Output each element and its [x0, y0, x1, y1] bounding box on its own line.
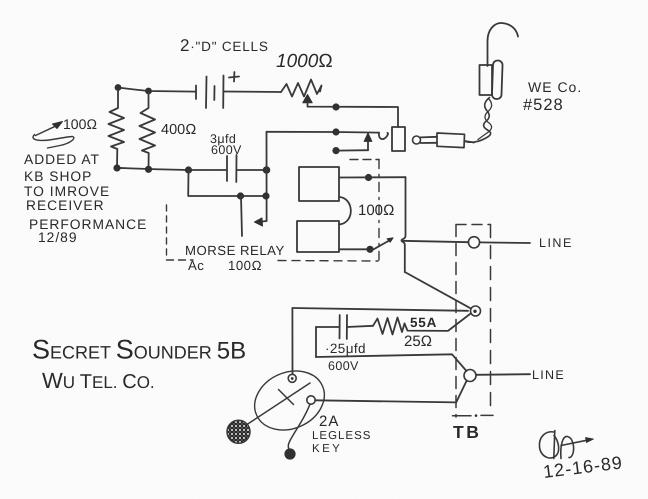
jack tip arrow pointing up — [367, 139, 369, 150]
wire: stub down into relay box — [241, 196, 242, 236]
wire: key contact to terminal 3 — [315, 381, 466, 402]
battery B1 (2 D cells) — [196, 72, 239, 108]
relay dashed enclosure left side — [166, 205, 168, 257]
receiver hanger hook — [488, 23, 519, 66]
resistor R1 100 ohm (vertical) — [109, 89, 125, 167]
terminal 3 (lower LINE) — [464, 370, 476, 382]
key knob (crosshatched) — [227, 420, 250, 443]
junction dot end y196 rail — [262, 192, 269, 199]
label LINE (bottom) — [532, 368, 565, 382]
capacitor C2 .25 mfd plates — [339, 315, 341, 339]
label 1000 ohm — [276, 51, 333, 72]
wire: upper coil to TB riser — [339, 176, 406, 178]
svg-text:Ac: Ac — [188, 258, 204, 273]
wire: riser x267 from mid rail down to arrow — [266, 132, 268, 221]
wire: resistor to terminal 2 — [405, 314, 471, 331]
svg-text:·25μfd: ·25μfd — [325, 341, 366, 356]
label TB — [453, 422, 481, 442]
svg-text:25Ω: 25Ω — [404, 333, 432, 350]
resistor R4 25 ohm zigzag — [373, 318, 405, 335]
svg-text:MORSE RELAY: MORSE RELAY — [185, 243, 285, 258]
phone plug shaft — [421, 137, 438, 143]
label MORSE RELAY AC 100 ohm — [185, 243, 285, 273]
terminal block dash-dot bottom — [453, 414, 494, 416]
wire: riser to LINE terminal 1 — [402, 241, 469, 242]
label 100 ohm (relay coil) — [358, 202, 395, 219]
wire: mid rail y132 to jack hook — [267, 131, 380, 134]
wire: top rail of spark network to terminal 2 — [292, 308, 468, 311]
resistor R2 400 ohm (vertical) — [140, 92, 156, 168]
wire: diagonal riser to terminal 2 — [405, 272, 471, 309]
key stop stud — [284, 448, 295, 459]
svg-text:KB SHOP: KB SHOP — [24, 169, 92, 184]
junction dot on y196 rail — [237, 192, 244, 199]
label 2A LEGLESS KEY — [312, 413, 371, 455]
wire: cap tap down and right — [188, 170, 266, 196]
svg-text:#528: #528 — [523, 96, 564, 114]
terminal block dashed left side — [455, 225, 457, 418]
svg-text:2·"D" CELLS: 2·"D" CELLS — [180, 36, 269, 55]
LINE terminal 1 — [468, 237, 479, 248]
annotation text ADDED AT KB SHOP — [24, 152, 147, 245]
key top terminal — [288, 374, 296, 382]
label 25 ohm — [404, 333, 432, 350]
relay coil upper — [299, 167, 339, 201]
wire: C1 right plate to vertical riser — [237, 169, 267, 171]
terminal 2 (relay/key junction) — [471, 306, 481, 316]
junction dot lower coil wire — [366, 246, 373, 253]
terminal block dashed right side — [490, 225, 492, 412]
terminal block dashed top — [456, 224, 491, 226]
svg-text:600V: 600V — [211, 143, 242, 157]
key cross mark — [279, 390, 294, 405]
rheostat wiper arrow — [303, 95, 312, 103]
wire: TB riser with jog at crossing — [402, 177, 406, 272]
connection arrow (added tap) pointing left — [261, 220, 267, 223]
relay coil connecting arc — [339, 197, 351, 225]
svg-text:100Ω: 100Ω — [228, 258, 262, 273]
svg-text:55A: 55A — [410, 315, 437, 330]
svg-text:100Ω: 100Ω — [358, 202, 395, 219]
date 12-16-89 — [542, 452, 624, 482]
relay armature switch blade with arrow — [372, 240, 391, 251]
relay dashed enclosure top — [350, 159, 379, 161]
relay dashed enclosure right side — [378, 160, 380, 261]
relay dashed enclosure bottom — [167, 259, 194, 261]
wire: top rail from node A to battery — [118, 88, 196, 92]
junction dot top of R2 — [145, 88, 152, 95]
label 100 ohm (added resistor) — [63, 116, 97, 132]
rheostat R3 1000 ohm zigzag — [281, 80, 322, 97]
receiver cord (twisted pair) — [466, 98, 491, 143]
junction dot at cap tap — [185, 166, 192, 173]
title SECRET SOUNDER 5B — [32, 335, 246, 394]
svg-text:LINE: LINE — [532, 368, 565, 382]
annotation arrow squiggle — [36, 125, 60, 136]
jack spring hook contact — [379, 133, 388, 139]
wire: inner branch vertical — [315, 327, 317, 357]
key contact terminal — [307, 396, 315, 404]
node A junction dot — [115, 84, 122, 91]
junction dot on wiper wire — [332, 103, 339, 110]
junction dot bottom R2 — [145, 166, 152, 173]
svg-text:TO IMROVE: TO IMROVE — [24, 184, 110, 199]
label 55A — [410, 315, 437, 330]
svg-text:WE Co.: WE Co. — [528, 79, 582, 95]
junction dot on coil wire — [365, 174, 372, 181]
svg-text:LINE: LINE — [539, 236, 573, 250]
wire: terminal 3 to LINE label — [476, 373, 530, 376]
wire: lower rail to terminal 3 — [316, 354, 467, 371]
telegraph key frame ellipse — [245, 360, 334, 440]
label: 2 D cells — [180, 36, 269, 55]
label 400 ohm — [161, 122, 196, 138]
signature — [539, 431, 593, 459]
receiver earpiece cap — [492, 60, 503, 99]
junction dot mid rail — [332, 128, 339, 135]
junction dot C1 riser — [263, 166, 271, 174]
svg-text:KEY: KEY — [312, 443, 342, 455]
wire: inner rail to capacitor — [316, 326, 340, 328]
wire: wiper down and right to jack — [308, 103, 399, 128]
svg-text:2A: 2A — [319, 413, 339, 430]
svg-text:RECEIVER: RECEIVER — [26, 198, 105, 213]
label WE Co #528 — [523, 79, 582, 114]
phone plug body — [437, 133, 465, 148]
svg-text:LEGLESS: LEGLESS — [312, 430, 371, 442]
key lever arm — [246, 383, 310, 425]
svg-text:400Ω: 400Ω — [161, 122, 196, 138]
svg-text:600V: 600V — [328, 359, 359, 373]
wire: battery plus to rheostat — [224, 91, 282, 94]
relay coil lower — [297, 221, 339, 252]
capacitor C1 3 mfd plates — [226, 156, 228, 181]
svg-text:12/89: 12/89 — [38, 230, 78, 245]
wire: plug to cord — [465, 141, 475, 143]
wire: stub to jack tip arrow — [336, 149, 368, 151]
junction dot jack stub — [332, 147, 339, 154]
label LINE (top) — [539, 236, 573, 250]
svg-text:TB: TB — [453, 422, 481, 442]
label 3 mfd 600V — [210, 132, 242, 157]
label .25 mfd 600V — [325, 341, 366, 373]
phone plug tip — [413, 136, 421, 144]
receiver body — [480, 65, 493, 95]
receiver jack body — [392, 127, 405, 151]
wire: lower coil to switch blade — [339, 248, 370, 250]
svg-text:1000Ω: 1000Ω — [276, 51, 333, 72]
wire: bottom rail under R1 R2 — [117, 168, 227, 170]
wire: terminal 1 to LINE label — [480, 241, 530, 244]
wire: capacitor to resistor — [347, 326, 373, 327]
svg-text:ADDED AT: ADDED AT — [24, 152, 100, 167]
junction dot bottom R1 — [113, 164, 120, 171]
key spring curve to stop — [288, 405, 309, 449]
wire: key top terminal riser — [291, 308, 293, 374]
svg-text:100Ω: 100Ω — [63, 116, 97, 132]
